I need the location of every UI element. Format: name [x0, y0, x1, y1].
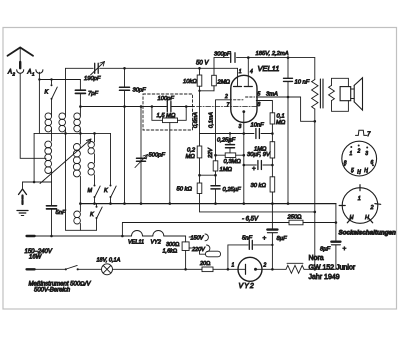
node anode pin4 [247, 56, 250, 59]
svg-text:+: + [252, 165, 256, 172]
capacitor 8uF cathode [267, 204, 277, 270]
svg-text:MΩ: MΩ [276, 120, 286, 126]
resistor 1M out [270, 142, 275, 177]
node M bus [93, 202, 96, 205]
svg-text:150V: 150V [191, 235, 205, 241]
node 5nF2 drop [227, 268, 230, 271]
resistor 2M [212, 58, 217, 86]
wire pin8 [256, 101, 272, 113]
socket VY2 labels [350, 196, 374, 221]
resistor 250 [289, 220, 303, 225]
switch K1 [51, 80, 58, 114]
resistor 0.1M [270, 113, 275, 142]
node anode res join [271, 132, 274, 135]
svg-text:22V: 22V [208, 147, 214, 159]
mains lead top [27, 235, 132, 237]
svg-text:0,25µF: 0,25µF [223, 187, 242, 193]
svg-text:1MΩ: 1MΩ [220, 167, 233, 173]
wire band return [66, 133, 97, 230]
svg-text:30pF: 30pF [133, 88, 147, 94]
svg-text:H: H [350, 215, 354, 221]
svg-text:8µF: 8µF [277, 236, 288, 242]
svg-text:1,5 MΩ: 1,5 MΩ [157, 113, 176, 119]
capacitor 10nF screen [284, 58, 293, 204]
resistor surge [286, 263, 304, 273]
tube VY2 [238, 257, 262, 281]
svg-text:Jahr 1949: Jahr 1949 [309, 274, 340, 281]
switch M [94, 185, 101, 204]
svg-text:2: 2 [357, 149, 361, 155]
svg-text:1: 1 [232, 263, 235, 269]
socket VEL11 [342, 141, 377, 176]
svg-text:5nF: 5nF [56, 210, 66, 216]
wire -6.5 riser [121, 223, 123, 237]
svg-text:1: 1 [239, 69, 242, 75]
capacitor 300pF [231, 53, 235, 63]
wire 22V line [200, 133, 273, 135]
node dropper mains [184, 268, 187, 271]
svg-text:VY2: VY2 [239, 283, 255, 290]
transformer core [320, 79, 323, 108]
node 7pF detector [79, 105, 82, 108]
svg-text:2MΩ: 2MΩ [217, 80, 231, 86]
svg-text:H: H [357, 170, 361, 176]
wire screen 3mA [256, 97, 315, 121]
svg-text:0,1mA: 0,1mA [209, 112, 215, 128]
svg-text:VEL11: VEL11 [258, 64, 280, 73]
trimmer 500pF [135, 105, 148, 205]
speaker [340, 78, 362, 110]
svg-text:190pF: 190pF [84, 76, 101, 82]
svg-text:8: 8 [344, 161, 347, 167]
coil L1b [45, 141, 52, 182]
svg-text:50 kΩ: 50 kΩ [177, 187, 193, 193]
svg-text:300pF: 300pF [214, 51, 231, 57]
node -6.5 corner [335, 221, 338, 224]
svg-text:MΩ: MΩ [186, 154, 196, 160]
wire 0.6mA branch [199, 91, 201, 146]
svg-text:0,6mA: 0,6mA [193, 112, 199, 128]
resistor 20 [202, 267, 238, 272]
node A1 [38, 78, 40, 80]
capacitor 100pF [167, 102, 171, 112]
resistor 50k [197, 175, 315, 212]
wire anode 185V [214, 57, 315, 59]
wire H1 50V rail [66, 67, 238, 69]
resistor 30k [270, 177, 275, 204]
transformer primary [312, 80, 318, 110]
svg-text:0,2: 0,2 [187, 148, 196, 154]
wire output primary feed [314, 58, 316, 80]
svg-text:K: K [45, 90, 49, 96]
svg-text:A: A [27, 70, 32, 76]
node bus left end [79, 202, 82, 205]
node junction ground [33, 181, 36, 184]
switch K2 [110, 133, 117, 203]
tap 220V [189, 245, 210, 252]
svg-text:- 6,5V: - 6,5V [242, 217, 259, 223]
capacitor 8uF main [304, 242, 340, 270]
wire bias tap link [200, 174, 216, 176]
tap 150V [189, 234, 208, 241]
svg-text:2: 2 [370, 205, 374, 211]
grid marks left [234, 99, 244, 101]
tube VEL11 envelope [231, 75, 257, 122]
svg-text:7: 7 [367, 132, 371, 138]
voltage selector link [200, 251, 221, 257]
svg-text:VY2: VY2 [151, 240, 161, 246]
svg-text:+: + [263, 235, 267, 242]
svg-text:Nora: Nora [309, 255, 324, 262]
capacitor 30uF [243, 161, 274, 170]
variometer arrow [40, 139, 91, 184]
wire ground link [23, 181, 52, 183]
node 8uF2 bottom [271, 268, 274, 271]
coil L6 [88, 133, 95, 184]
svg-text:1: 1 [32, 72, 35, 77]
svg-text:0,1: 0,1 [277, 114, 285, 120]
heater VY2 [153, 231, 164, 237]
capacitor 30pF [120, 67, 130, 205]
svg-text:16W: 16W [29, 255, 43, 261]
node 30k bus [271, 202, 274, 205]
svg-text:H: H [364, 168, 368, 174]
plate 2 [244, 58, 252, 87]
node coil6 top [93, 132, 96, 135]
svg-text:2: 2 [224, 94, 228, 100]
svg-text:6: 6 [371, 160, 374, 166]
wire heater to dropper [164, 236, 186, 242]
svg-text:1: 1 [358, 196, 361, 202]
socket VEL11 labels [344, 149, 374, 176]
heater VEL11 [132, 231, 143, 237]
capacitor 5nF [47, 206, 57, 236]
node 5nF mains [50, 235, 53, 238]
coil L5 [74, 204, 81, 231]
resistor dropper [182, 242, 189, 269]
svg-text:3mA: 3mA [266, 92, 278, 98]
svg-text:2: 2 [12, 72, 16, 77]
svg-text:3: 3 [365, 151, 368, 157]
coil L4 variometer [73, 133, 80, 203]
resistor 1M grid [213, 161, 218, 185]
trimmer 190pF [91, 62, 105, 76]
socket VY2 [339, 185, 381, 224]
coil L2 [59, 68, 66, 133]
node 10nF top [287, 56, 290, 59]
bus chassis [80, 203, 336, 205]
wire join [200, 86, 215, 91]
node tap 1M [214, 174, 217, 177]
node 8uF2 wire [271, 244, 273, 246]
wire A1 to 7pF corner [39, 79, 80, 81]
grid marks right [246, 96, 255, 98]
wire -6.5V line [122, 222, 336, 224]
node coil3 band [79, 132, 82, 135]
symbol speaker small [356, 130, 367, 135]
shield dash-dot [197, 106, 257, 108]
wire VY2 out [262, 268, 286, 270]
svg-text:30µF, 9V: 30µF, 9V [247, 152, 271, 158]
svg-text:1: 1 [350, 151, 353, 157]
svg-text:0,25µF: 0,25µF [217, 138, 236, 144]
resistor 1.5M bridge [151, 105, 188, 122]
wire A2 down to coil tap [20, 74, 46, 159]
svg-text:7pF: 7pF [88, 91, 98, 97]
switch K3 [96, 204, 103, 231]
wire bus corner down [335, 204, 337, 241]
svg-text:300Ω: 300Ω [166, 242, 179, 248]
svg-text:H: H [365, 215, 369, 221]
svg-text:A: A [7, 70, 12, 76]
antenna [8, 48, 34, 69]
resistor 0.3M [214, 153, 245, 158]
node 50V [198, 67, 201, 70]
node screen 10nF [287, 96, 290, 99]
capacitor 5nF2 [228, 240, 273, 269]
wire primary bottom [314, 109, 316, 269]
dashed shield box [143, 94, 193, 130]
node cathode bus [243, 202, 246, 205]
svg-text:10 nF: 10 nF [295, 80, 310, 86]
terminal A2 [17, 70, 24, 74]
node 0.2M 50k tap [198, 174, 201, 177]
node 0.25 bus [214, 202, 217, 205]
node 22V cathode [243, 132, 246, 135]
node K2 bus [109, 202, 112, 205]
coil L3 [74, 107, 81, 134]
svg-text:4: 4 [250, 69, 253, 75]
svg-text:8µF: 8µF [320, 247, 331, 253]
switch mains [65, 265, 102, 270]
cathode [242, 110, 245, 203]
svg-text:18V, 0,1A: 18V, 0,1A [97, 257, 121, 263]
svg-text:500pF: 500pF [149, 153, 166, 159]
wire band corner to ground [33, 133, 35, 182]
plate 1 [234, 68, 242, 86]
svg-text:0,3MΩ: 0,3MΩ [224, 159, 242, 165]
ground [17, 182, 28, 216]
wire secondary bottom [332, 101, 349, 112]
node box bus [169, 202, 172, 205]
node surge join [314, 268, 317, 271]
svg-text:K: K [90, 212, 94, 218]
svg-text:M: M [88, 188, 93, 194]
svg-text:10kΩ: 10kΩ [183, 79, 197, 85]
capacitor 7pF [75, 80, 85, 107]
wire grid1 [214, 86, 232, 161]
svg-text:5nF: 5nF [242, 236, 252, 242]
svg-text:220V: 220V [191, 247, 206, 253]
node 10nF bus [287, 202, 290, 205]
svg-text:20Ω: 20Ω [199, 261, 210, 267]
mains lead bottom [27, 268, 66, 270]
wire shield box down [169, 123, 171, 204]
svg-text:2: 2 [263, 263, 267, 269]
svg-text:30 kΩ: 30 kΩ [251, 183, 267, 189]
svg-text:10nF: 10nF [251, 123, 265, 129]
svg-text:50 V: 50 V [196, 61, 209, 67]
node screen join [314, 120, 317, 123]
node -6.5 riser [121, 235, 124, 238]
wire A1 down to band wire [38, 72, 40, 133]
svg-text:K: K [104, 188, 108, 194]
svg-text:7: 7 [227, 103, 230, 109]
wire secondary top [332, 78, 349, 86]
lamp [102, 264, 203, 275]
terminal A1 [36, 70, 43, 74]
svg-text:100pF: 100pF [158, 96, 175, 102]
node coil2 band [64, 132, 67, 135]
capacitor 0.25uF bias [211, 186, 220, 204]
wire band link [34, 132, 110, 134]
svg-text:185V, 2,2mA: 185V, 2,2mA [256, 51, 289, 57]
node feedback join [314, 211, 317, 214]
svg-text:8: 8 [258, 102, 261, 108]
node 10k 2M join [198, 90, 200, 92]
svg-text:1,6kΩ: 1,6kΩ [163, 249, 178, 255]
resistor 10k [197, 68, 202, 91]
svg-text:3: 3 [239, 124, 242, 130]
wire detector line [80, 106, 194, 108]
resistor 0.2M [197, 146, 202, 175]
svg-text:250Ω: 250Ω [287, 215, 303, 221]
node A1 switch tap [50, 78, 52, 80]
svg-text:+: + [343, 246, 347, 253]
coil L1a [45, 113, 52, 141]
svg-text:5: 5 [351, 168, 354, 174]
svg-text:VEL11: VEL11 [128, 240, 144, 246]
wire heater link [143, 235, 153, 237]
wire coil to 5nF [51, 182, 53, 205]
svg-text:Sockelschaltungen: Sockelschaltungen [339, 230, 397, 237]
svg-text:GW 152 Junior: GW 152 Junior [309, 265, 356, 272]
transformer secondary [329, 85, 335, 100]
svg-text:500V-Bereich: 500V-Bereich [34, 287, 71, 293]
capacitor 10nF coupling [256, 129, 260, 139]
capacitor 0.25uF coupling [226, 132, 235, 153]
